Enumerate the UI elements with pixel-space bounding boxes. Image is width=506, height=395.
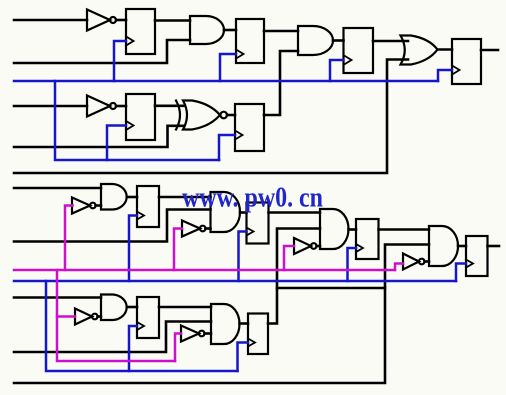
or-gate G3 (401, 36, 438, 65)
wire G10 out (240, 322, 249, 325)
wire U5.Q to G4 (155, 105, 184, 108)
and-gate G8 (429, 226, 458, 266)
flip-flop U7 (137, 186, 159, 227)
blue branch to U10 clk (456, 264, 466, 282)
blue branch to U8 clk (239, 232, 247, 282)
wire row2 input to G1.B (14, 40, 190, 63)
flip-flop U12 (248, 314, 268, 355)
flip-flop U5 (126, 94, 155, 140)
blue branch to U1 clk (114, 41, 126, 81)
wire G1 out (224, 29, 236, 32)
and-gate G9 (101, 295, 127, 321)
wire U3.Q to G3 (373, 40, 408, 43)
wire row5 input to G5.A (14, 187, 101, 190)
inverter N1 (87, 10, 126, 31)
wire G2 out (333, 39, 344, 42)
inverter N7 (75, 309, 101, 325)
inverter N5 (294, 238, 320, 254)
inverter N3 (72, 198, 96, 214)
wire U1.Q to G1 (155, 19, 190, 22)
blue branch to U2 clk (220, 54, 236, 81)
and-gate G2 (298, 26, 333, 55)
magenta drop to bottom row (57, 270, 175, 361)
flip-flop U8 (247, 203, 269, 244)
wire G3 out (438, 48, 453, 51)
blue branch to U7 clk (129, 216, 137, 282)
blue branch to U12 clk (238, 343, 249, 372)
xnor-gate G4 (176, 101, 227, 130)
flip-flop U6 (235, 104, 264, 151)
wire G4 out (227, 114, 235, 117)
blue branch to U4 clk (438, 70, 452, 81)
and-gate G6 (211, 192, 241, 232)
wire U11.Q to G10 (159, 306, 211, 309)
magenta branch to N5 (284, 246, 294, 270)
wire U8.Q to G7 (269, 211, 321, 214)
inverter N4 (182, 221, 211, 237)
flip-flop U10 (466, 236, 488, 276)
inverter N8 (181, 326, 211, 342)
magenta branch to N4 (174, 229, 182, 271)
wire row6 input to G6.B (14, 210, 211, 242)
flip-flop U3 (344, 28, 374, 73)
svg-text:www. pw0. cn: www. pw0. cn (182, 182, 323, 214)
wire U12.Q branch to G8.B (277, 245, 429, 289)
wire U6.Q up to G2.B (264, 51, 298, 115)
wire U7.Q to G6 (159, 196, 211, 199)
blue clock bus top (14, 80, 438, 83)
magenta input bus (14, 269, 395, 272)
wire U2.Q to G2 (264, 30, 298, 33)
blue branch to U5 clk (107, 126, 126, 161)
magenta branch to N7 (57, 315, 75, 318)
magenta branch to N3 (65, 206, 73, 271)
wire row3 input (14, 105, 87, 108)
and-gate G5 (101, 184, 127, 210)
wire row-d input to G3.B (14, 60, 408, 174)
inverter N6 (403, 254, 429, 270)
wire G7 out (349, 228, 357, 231)
wire row1 input (14, 19, 87, 22)
magenta branch to N6 (395, 264, 403, 271)
wire U9.Q to G8 (379, 228, 430, 231)
flip-flop U1 (126, 9, 155, 54)
and-gate G10 (211, 304, 240, 344)
blue branch to U9 clk (348, 248, 357, 281)
flip-flop U11 (137, 297, 159, 338)
blue branch to U6 clk (219, 135, 235, 160)
blue branch to U11 clk (129, 326, 137, 371)
wire G9 out (128, 306, 137, 309)
wire G5 out (128, 196, 137, 199)
wire row7 input to G9.A (14, 296, 101, 299)
wire bottom row input rises at x385 (14, 288, 385, 383)
wire U4.Q output (481, 49, 498, 52)
wire magenta-fed N3 out (96, 204, 102, 207)
and-gate G1 (190, 16, 224, 44)
wire U10.Q output (488, 245, 500, 248)
blue branch to U3 clk (330, 60, 344, 81)
blue clock bus bottom (14, 280, 456, 283)
blue drop to bottom row (46, 281, 238, 371)
inverter N2 (87, 96, 126, 117)
flip-flop U4 (452, 39, 481, 84)
blue drop to second row (55, 81, 219, 160)
wire U12.Q feedback up to G7.B (268, 229, 320, 324)
and-gate G7 (320, 209, 348, 249)
wire G8 out (458, 245, 466, 248)
flip-flop U2 (236, 19, 264, 63)
wire row4 input to G4.B (14, 126, 184, 147)
magenta branch to N8 (175, 334, 181, 362)
flip-flop U9 (356, 219, 379, 259)
wire row8 input to G10.B (14, 322, 211, 353)
wire G6 out (240, 211, 247, 214)
